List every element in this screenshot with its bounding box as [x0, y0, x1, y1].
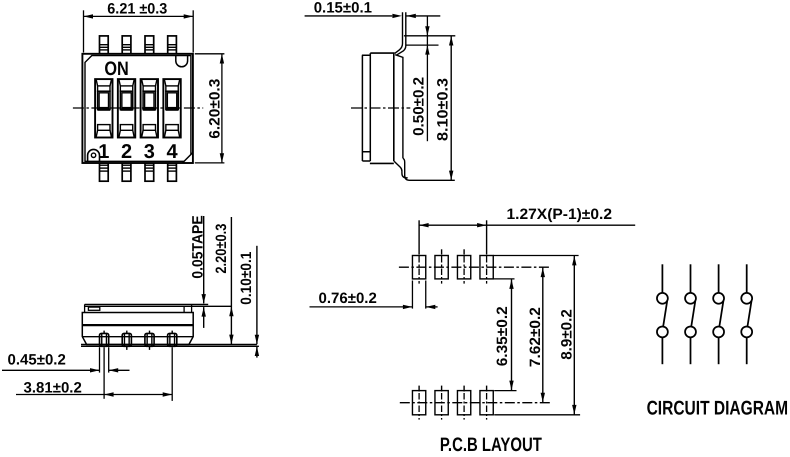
switch symbol S4 [741, 264, 752, 364]
svg-text:0.76±0.2: 0.76±0.2 [319, 290, 377, 307]
dimension 0.10 +-0.1 (standoff) [256, 246, 258, 344]
dimension 0.45 +-0.2 (pin width) [2, 347, 130, 372]
svg-text:6.21 ±0.3: 6.21 ±0.3 [107, 0, 167, 17]
pad top 4 [480, 256, 493, 279]
front view polarity notch top-right [176, 56, 188, 67]
pad bottom 1 [412, 391, 425, 415]
svg-text:7.62±0.2: 7.62±0.2 [527, 307, 544, 367]
dimension 6.21 +-0.3 (top width) [84, 10, 194, 52]
svg-text:8.9±0.2: 8.9±0.2 [559, 309, 576, 360]
pad top 2 [435, 256, 448, 279]
bottom view pin 2 [122, 331, 131, 350]
svg-text:0.45±0.2: 0.45±0.2 [8, 352, 66, 369]
front view pin top 2 [122, 36, 131, 54]
svg-text:4: 4 [167, 141, 179, 163]
front view bottom-right chamfer [182, 152, 193, 163]
svg-text:2: 2 [121, 141, 132, 163]
svg-text:0.10±0.1: 0.10±0.1 [238, 252, 255, 305]
svg-text:3: 3 [144, 141, 155, 163]
bottom view pin 1 [100, 331, 109, 347]
dimension 6.20 +-0.3 (right height) [195, 54, 225, 163]
front view pin bottom 1 [100, 163, 109, 181]
dimension 2.20 +-0.3 [230, 217, 232, 344]
side view centerline [351, 107, 410, 109]
front view pin bottom 4 [168, 163, 177, 181]
dimension 7.62 +-0.2 [542, 267, 544, 402]
svg-text:1: 1 [98, 141, 109, 163]
pad top 1 [412, 256, 425, 279]
dimension 8.10 +-0.3 [450, 36, 452, 181]
front view body inner outline with chamfers [85, 56, 191, 162]
svg-text:P.C.B LAYOUT: P.C.B LAYOUT [440, 434, 542, 452]
switch slot 1 [95, 79, 112, 137]
front view index arch bottom-left [88, 149, 100, 161]
switch symbol S3 [713, 264, 724, 364]
pad bottom 3 [457, 391, 470, 415]
svg-text:ON: ON [104, 58, 128, 80]
switch symbol S2 [685, 264, 696, 364]
front view pin bottom 2 [122, 163, 131, 181]
front view pin bottom 3 [145, 163, 154, 181]
switch slot 3 [141, 79, 158, 137]
dimension 0.15 +-0.1 (lead thickness) [305, 15, 393, 17]
bottom view pin 3 [145, 331, 154, 350]
body outline [82, 313, 193, 345]
dimension 0.05 TAPE [203, 216, 205, 303]
front view pin top 3 [145, 36, 154, 54]
svg-text:6.35±0.2: 6.35±0.2 [494, 306, 511, 366]
bottom view pin 4 [168, 331, 177, 347]
dimension 8.9 +-0.2 [573, 256, 575, 415]
cover strip [85, 304, 192, 312]
dimension 6.35 +-0.2 [511, 279, 513, 390]
switch slot 2 [118, 79, 135, 137]
dimension 1.27X(P-1) +-0.2 [419, 224, 635, 226]
svg-text:6.20±0.3: 6.20±0.3 [207, 79, 224, 139]
dimension 0.50 +-0.2 [404, 16, 455, 141]
pcb extension lines right [493, 256, 580, 415]
side view top lead [395, 12, 403, 53]
pad bottom 2 [435, 391, 448, 415]
front view pin top 4 [168, 36, 177, 54]
dimension 3.81 +-0.2 (pin1 to pin4) [16, 347, 172, 401]
front view centerline [73, 107, 203, 109]
front view body outer outline [82, 54, 192, 163]
svg-text:0.50±0.2: 0.50±0.2 [410, 77, 427, 136]
dimension 0.76 +-0.2 (pad width) [310, 281, 438, 309]
side view bottom lead [403, 158, 455, 180]
seating plane double line [81, 344, 257, 346]
front view pin top 1 [100, 36, 109, 54]
svg-text:0.05TAPE: 0.05TAPE [189, 215, 206, 278]
pad bottom 4 [480, 391, 493, 415]
switch symbol S1 [657, 264, 668, 364]
pad row centerlines [399, 266, 550, 268]
pad top 3 [457, 256, 470, 279]
svg-text:8.10±0.3: 8.10±0.3 [435, 78, 452, 141]
svg-text:CIRCUIT DIAGRAM: CIRCUIT DIAGRAM [647, 397, 789, 419]
svg-text:0.15±0.1: 0.15±0.1 [314, 0, 372, 17]
svg-text:2.20±0.3: 2.20±0.3 [213, 224, 230, 274]
tape double line [85, 303, 209, 305]
switch slot 4 [163, 79, 180, 137]
svg-text:3.81±0.2: 3.81±0.2 [24, 379, 82, 396]
svg-text:1.27X(P-1)±0.2: 1.27X(P-1)±0.2 [507, 206, 613, 223]
side view body [362, 53, 403, 163]
